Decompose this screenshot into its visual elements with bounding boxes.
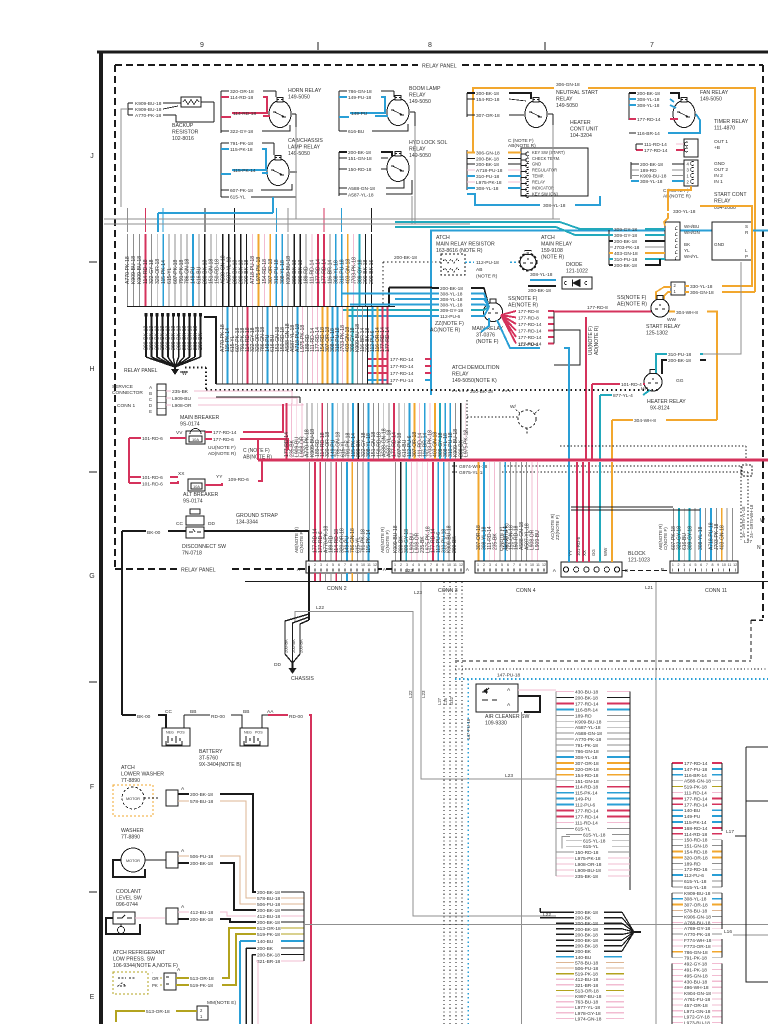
svg-text:307-OR-18: 307-OR-18	[476, 113, 500, 119]
svg-text:OUT 1: OUT 1	[714, 139, 728, 145]
wire L975-PK-18 bundle2	[302, 307, 304, 384]
svg-text:B: B	[149, 391, 152, 396]
svg-text:ALT BREAKER: ALT BREAKER	[183, 492, 219, 498]
wire 309-GY-18 bundle2	[352, 307, 354, 384]
svg-text:200-BK-18: 200-BK-18	[637, 91, 660, 97]
wire 150-RD-18 bundle1	[216, 234, 218, 306]
svg-text:200-BK-18: 200-BK-18	[640, 162, 663, 168]
wire 115-PK-14 bundle2	[227, 307, 229, 384]
wire 786-GN-18 trunk	[337, 403, 339, 459]
svg-text:200-BK: 200-BK	[257, 946, 274, 952]
svg-text:1: 1	[394, 563, 396, 567]
svg-text:+B: +B	[714, 145, 720, 151]
svg-text:2: 2	[400, 563, 402, 567]
svg-text:RELAY PANEL: RELAY PANEL	[181, 568, 216, 574]
svg-text:RELAY PANEL: RELAY PANEL	[422, 64, 457, 70]
svg-text:10A: 10A	[192, 437, 199, 442]
svg-text:G32: G32	[449, 696, 454, 705]
svg-text:149-PU: 149-PU	[684, 814, 701, 820]
svg-text:A588-GN-18: A588-GN-18	[684, 779, 711, 785]
wire 877-YL-4 into block	[599, 462, 601, 562]
svg-text:AE(NOTE R): AE(NOTE R)	[508, 303, 538, 309]
wire 309-GY-18	[405, 462, 407, 561]
wire 149-PU	[346, 462, 348, 561]
wire 235-BK	[421, 462, 423, 561]
wire K909-BU-18 bundle1	[132, 234, 134, 306]
svg-text:J: J	[90, 153, 94, 160]
wire J703-PK-18 bundle1	[353, 234, 355, 306]
svg-text:(NOTE R): (NOTE R)	[541, 255, 564, 261]
svg-text:519-PK-18: 519-PK-18	[684, 785, 707, 791]
svg-text:C(NOTE F): C(NOTE F)	[299, 530, 304, 553]
svg-text:ZZ(NOTE F): ZZ(NOTE F)	[555, 515, 560, 540]
wire 200-BK-18 bundle1	[246, 234, 248, 306]
svg-text:763-BU-18: 763-BU-18	[575, 1000, 599, 1006]
wire K909-BU-18 bundle2	[357, 307, 359, 384]
svg-text:177-RD-8: 177-RD-8	[518, 315, 539, 321]
wire 200-BK-18 left bundle	[189, 313, 191, 357]
svg-text:C: C	[149, 397, 152, 402]
wire 109-RD-6 into block	[576, 462, 578, 562]
svg-text:ATCH: ATCH	[541, 235, 555, 241]
svg-text:491-PK-18: 491-PK-18	[684, 968, 707, 974]
svg-text:309-GY-18: 309-GY-18	[440, 308, 463, 314]
svg-text:DD: DD	[208, 521, 215, 527]
wire 114-RD-18 bundle2	[247, 307, 249, 384]
svg-text:6: 6	[424, 563, 426, 567]
wire 112-PU-6 trunk	[408, 403, 410, 459]
svg-text:RESISTOR: RESISTOR	[172, 130, 199, 136]
svg-text:149-5050: 149-5050	[288, 95, 310, 101]
svg-text:308-YL-18: 308-YL-18	[640, 179, 663, 185]
wire K909-BU-18	[448, 462, 450, 561]
long feeders from bundles to atch main relay	[389, 287, 432, 289]
alt breaker 9S-0174	[188, 479, 205, 491]
svg-text:6: 6	[338, 563, 340, 567]
wire L975-PK-18 bundle1	[257, 234, 259, 306]
wire 200-BK-18 bundle1	[234, 234, 236, 306]
svg-text:10: 10	[530, 563, 534, 567]
wire 310-PU-18 bundle1	[275, 234, 277, 306]
wire 116-OR-14 bundle2	[377, 307, 379, 384]
wire 308-YL-18 trunk	[444, 403, 446, 459]
svg-text:112-PU-18: 112-PU-18	[476, 260, 499, 266]
svg-text:330-YL-18: 330-YL-18	[673, 209, 696, 215]
svg-text:AIR CLEANER SW: AIR CLEANER SW	[485, 714, 529, 720]
three 200-BK wires to chassis	[284, 627, 286, 654]
svg-text:147-PU-18: 147-PU-18	[466, 718, 471, 740]
svg-text:177-RD-8: 177-RD-8	[587, 305, 608, 311]
wire 310-PU-18 trunk	[449, 403, 451, 459]
dotted wire 112-PU-18 blue	[465, 261, 474, 263]
CONN 11	[670, 561, 738, 573]
svg-text:COOLANT: COOLANT	[116, 889, 142, 895]
svg-text:RELAY: RELAY	[714, 199, 731, 205]
svg-text:11: 11	[367, 563, 371, 567]
grid tick	[89, 681, 97, 683]
svg-text:8: 8	[436, 563, 438, 567]
svg-text:GND: GND	[714, 161, 725, 167]
svg-text:L26: L26	[443, 697, 448, 705]
svg-text:XX: XX	[178, 471, 185, 477]
svg-text:WH/GN: WH/GN	[684, 230, 700, 235]
svg-text:A770-PK-18: A770-PK-18	[135, 113, 161, 119]
wire 177-RD-14 trunk	[286, 403, 288, 459]
svg-text:A768-BU-18: A768-BU-18	[684, 920, 711, 926]
wire 151-GN-18 bundle2	[277, 307, 279, 384]
wire 200-BK-18 left bundle	[172, 313, 174, 357]
svg-text:SERVICE: SERVICE	[112, 384, 133, 390]
svg-text:200-BK-18: 200-BK-18	[190, 917, 213, 923]
dotted boundary line under bundle2	[206, 389, 660, 391]
svg-text:AB(NOTE R): AB(NOTE R)	[504, 523, 510, 551]
svg-text:L23: L23	[414, 590, 422, 596]
svg-text:168-RD-14: 168-RD-14	[684, 826, 708, 832]
svg-text:9X-8124: 9X-8124	[650, 406, 670, 412]
svg-text:G: G	[89, 573, 94, 580]
CONN 3	[392, 561, 464, 573]
svg-text:RELAY: RELAY	[532, 180, 545, 185]
svg-text:A588-GN-18: A588-GN-18	[348, 186, 375, 192]
svg-text:K909-BU-18: K909-BU-18	[135, 101, 162, 107]
svg-text:CONT UNIT: CONT UNIT	[570, 127, 599, 133]
relay panel dashed border top	[115, 64, 418, 66]
L21 vertical gray	[655, 582, 657, 1024]
svg-text:A587-YL-18: A587-YL-18	[575, 725, 601, 731]
wire 111-RD-14	[488, 462, 490, 561]
svg-text:200-BK-18: 200-BK-18	[476, 157, 499, 163]
wires continue down from list	[239, 941, 241, 1024]
svg-text:AB(NOTE R): AB(NOTE R)	[508, 143, 536, 149]
grid tick	[544, 42, 546, 50]
wire 177-RD-14	[501, 315, 516, 344]
svg-text:1: 1	[672, 563, 674, 567]
battery 2	[240, 728, 268, 746]
svg-text:WW: WW	[603, 547, 608, 556]
fine dotted line	[455, 668, 768, 670]
svg-text:3T-0376: 3T-0376	[476, 333, 495, 339]
L22 funnel merge	[622, 912, 634, 932]
svg-text:177-RD-14: 177-RD-14	[213, 430, 237, 436]
svg-text:GROUND STRAP: GROUND STRAP	[236, 513, 278, 519]
svg-text:101-RD-6: 101-RD-6	[142, 475, 163, 481]
svg-text:430-BU-18: 430-BU-18	[684, 979, 708, 985]
svg-text:L23: L23	[421, 690, 426, 698]
svg-text:L23: L23	[505, 773, 513, 779]
svg-text:YY: YY	[568, 550, 573, 556]
svg-text:200-BK-18: 200-BK-18	[575, 938, 598, 944]
svg-text:BLOCK: BLOCK	[628, 551, 646, 557]
svg-text:200-BK: 200-BK	[291, 639, 296, 653]
svg-text:AC(NOTE R): AC(NOTE R)	[550, 513, 555, 540]
svg-text:3T-5760: 3T-5760	[199, 756, 218, 762]
ground strap arrow W	[174, 367, 176, 369]
wire 307-OR-18 bundle2	[327, 307, 329, 384]
svg-text:CONN 1: CONN 1	[117, 403, 135, 409]
svg-text:7N-0718: 7N-0718	[182, 551, 202, 557]
wires into start contactor	[608, 229, 610, 265]
svg-text:149-PU: 149-PU	[351, 111, 368, 117]
svg-text:RELAY: RELAY	[556, 97, 573, 103]
svg-text:A: A	[149, 385, 152, 390]
red feeder vertical at left	[128, 438, 130, 483]
svg-text:L975-PK-18: L975-PK-18	[575, 856, 601, 862]
svg-text:309-GY-18: 309-GY-18	[614, 227, 637, 233]
svg-text:114-RD-18: 114-RD-18	[230, 95, 253, 101]
svg-text:121-1022: 121-1022	[566, 269, 588, 275]
svg-text:4: 4	[412, 563, 414, 567]
svg-text:CONN 4: CONN 4	[516, 588, 536, 594]
svg-text:DISCONNECT SW: DISCONNECT SW	[182, 544, 226, 550]
svg-text:POS: POS	[177, 731, 185, 735]
svg-text:235-BK: 235-BK	[172, 389, 189, 395]
svg-text:111-RD-14: 111-RD-14	[684, 791, 707, 797]
svg-text:578-BU-18: 578-BU-18	[257, 896, 281, 902]
wire 101-RD-6 into block	[582, 462, 584, 562]
svg-text:L909-BU: L909-BU	[172, 396, 191, 402]
svg-text:6: 6	[700, 563, 702, 567]
svg-text:322-GY-18: 322-GY-18	[230, 129, 253, 135]
svg-text:BK-00: BK-00	[147, 530, 161, 536]
svg-text:101-RD-4: 101-RD-4	[621, 382, 642, 388]
wire 200-BK-18 bundle1	[204, 234, 206, 306]
svg-text:200-BK-18: 200-BK-18	[575, 944, 598, 950]
red vertical 101-RD-4	[591, 384, 593, 460]
svg-text:177-RD-14: 177-RD-14	[684, 796, 708, 802]
svg-text:KEY SW (ON): KEY SW (ON)	[532, 192, 558, 197]
wire 189-RD trunk	[316, 403, 318, 459]
svg-text:F773-OR-18: F773-OR-18	[684, 944, 711, 950]
wire 111-RD-14 trunk	[419, 403, 421, 459]
svg-text:307-OR-18: 307-OR-18	[575, 761, 599, 767]
wire 200-BK-18 left bundle	[145, 313, 147, 357]
start contactor right labels box	[712, 222, 752, 260]
svg-text:308-YL-18: 308-YL-18	[476, 186, 499, 192]
svg-text:9: 9	[442, 563, 444, 567]
svg-text:149-5050: 149-5050	[288, 151, 310, 157]
svg-text:200-BK-18: 200-BK-18	[348, 150, 371, 156]
svg-text:506-PU-18: 506-PU-18	[257, 902, 281, 908]
svg-text:L27: L27	[437, 697, 442, 705]
wire A588-GN-18	[520, 462, 522, 561]
svg-text:513-OR-18: 513-OR-18	[190, 976, 214, 982]
wire 308-YL-18	[699, 508, 701, 561]
wire A588-GN-18 trunk	[383, 403, 385, 459]
wire K909-BU-18 trunk	[454, 403, 456, 459]
wire K909-BU-18 bundle1	[287, 234, 289, 306]
svg-text:XX: XX	[582, 550, 587, 556]
svg-text:ZZ(NOTE F): ZZ(NOTE F)	[435, 321, 464, 327]
svg-text:1: 1	[477, 563, 479, 567]
wire J703-PK-18	[715, 508, 717, 561]
svg-text:5: 5	[332, 563, 334, 567]
svg-text:513-OR-18: 513-OR-18	[575, 988, 599, 994]
svg-text:7: 7	[344, 563, 346, 567]
svg-text:9: 9	[356, 563, 358, 567]
wire 607-PK-18	[673, 508, 675, 561]
svg-text:L972-GY-18: L972-GY-18	[684, 1015, 710, 1021]
svg-text:GND: GND	[714, 242, 725, 247]
svg-text:578-BU-18: 578-BU-18	[575, 960, 599, 966]
wire 114-RD-18	[335, 462, 337, 561]
svg-text:IN 1: IN 1	[714, 179, 723, 185]
svg-text:403-GN-18: 403-GN-18	[614, 251, 638, 257]
wire J703-PK-18 bundle2	[342, 307, 344, 384]
svg-text:DIODE: DIODE	[566, 262, 583, 268]
svg-text:114-RD-18: 114-RD-18	[575, 785, 598, 791]
svg-text:149-5050: 149-5050	[409, 153, 431, 159]
svg-text:MM(NOTE E): MM(NOTE E)	[207, 1000, 236, 1006]
wire 330-YL-18 into contactor top	[664, 213, 668, 226]
svg-text:200-BK-18: 200-BK-18	[257, 908, 280, 914]
svg-text:235-BK: 235-BK	[492, 533, 498, 550]
svg-text:9X-3404(NOTE B): 9X-3404(NOTE B)	[199, 762, 242, 768]
wire 116-BR-14 trunk	[424, 403, 426, 459]
svg-text:L975-PK-18: L975-PK-18	[476, 180, 502, 186]
svg-text:615-YL: 615-YL	[575, 826, 591, 832]
svg-text:8: 8	[350, 563, 352, 567]
svg-text:B: B	[661, 567, 664, 573]
wire 607-PK-18 bundle1	[174, 234, 176, 306]
dotted vertical columns	[443, 582, 445, 1024]
wire 112-PU-6 bundle2	[372, 307, 374, 384]
start cont relay upper box pins	[684, 160, 698, 186]
horn relay K 149-5050	[269, 101, 291, 128]
svg-text:320-OR-18: 320-OR-18	[575, 767, 599, 773]
svg-text:12: 12	[373, 563, 377, 567]
svg-text:177-RD-14: 177-RD-14	[575, 809, 599, 815]
svg-text:307-OR-18: 307-OR-18	[684, 903, 708, 909]
grid tick	[89, 891, 97, 893]
wire 200-BK-18 left bundle	[167, 313, 169, 357]
svg-text:AC(NOTE R): AC(NOTE R)	[430, 328, 461, 334]
svg-text:8: 8	[428, 42, 432, 49]
wire 114-RD-18 bundle1	[144, 234, 146, 306]
wire	[694, 508, 696, 561]
svg-text:8: 8	[712, 563, 714, 567]
svg-text:112-PU-6: 112-PU-6	[575, 803, 596, 809]
svg-text:109-9330: 109-9330	[485, 721, 507, 727]
wire 154-RD-18 bundle2	[322, 307, 324, 384]
svg-text:7: 7	[706, 563, 708, 567]
CONN 2	[306, 561, 378, 573]
svg-text:L909-BU-18: L909-BU-18	[575, 868, 601, 874]
wire 616-BU bundle2	[272, 307, 274, 384]
teal feeders from left into contactor	[395, 222, 609, 229]
dotted wire 200-BK-18 to resistor	[383, 261, 441, 263]
svg-text:MOTOR: MOTOR	[126, 859, 140, 863]
wire 177-RD-14	[501, 315, 516, 331]
svg-text:NEUTRAL START: NEUTRAL START	[556, 90, 599, 96]
svg-text:WASHER: WASHER	[121, 828, 144, 834]
svg-text:306-GN-18: 306-GN-18	[476, 151, 500, 157]
svg-text:10: 10	[722, 563, 726, 567]
svg-text:506-PU-18: 506-PU-18	[190, 854, 214, 860]
wire stubs above bundle1	[127, 208, 129, 232]
svg-text:2: 2	[314, 563, 316, 567]
svg-text:149-5050(NOTE K): 149-5050(NOTE K)	[452, 378, 497, 384]
wire 307-OR-18 trunk	[414, 403, 416, 459]
wire 235-BK trunk	[291, 403, 293, 459]
svg-text:N: N	[757, 545, 761, 551]
wire 150-RD-18	[515, 462, 517, 561]
grid tick	[89, 261, 97, 263]
svg-text:L908-OR: L908-OR	[172, 403, 192, 409]
wire 177-PU-14	[368, 379, 388, 381]
svg-text:308-YL-18: 308-YL-18	[440, 291, 463, 297]
wire 154-RD-18 bundle1	[263, 234, 265, 306]
dotted wires demolition	[466, 400, 468, 434]
wire 791-PK-18 bundle2	[242, 307, 244, 384]
svg-text:12: 12	[459, 563, 463, 567]
wire 616-BU trunk	[403, 403, 405, 459]
wire L975-PK-18 trunk	[465, 403, 467, 459]
svg-text:200-BK: 200-BK	[198, 332, 204, 350]
svg-text:10A: 10A	[193, 485, 200, 489]
wire 200-BK left bundle	[200, 313, 202, 357]
svg-text:INDICATOR: INDICATOR	[532, 186, 554, 191]
trunk top bracket	[299, 397, 301, 403]
svg-text:310-PU-18: 310-PU-18	[668, 352, 692, 358]
wire 200-BK-18 bundle1	[240, 234, 242, 306]
svg-text:115-PK-14: 115-PK-14	[575, 791, 598, 797]
svg-text:7: 7	[513, 563, 515, 567]
wire 309-GY-18	[689, 508, 691, 561]
wire 322-GY-18 bundle1	[150, 234, 152, 306]
svg-text:615-YL-18: 615-YL-18	[583, 838, 606, 844]
svg-text:200-BK-16: 200-BK-16	[369, 259, 375, 284]
wire 101-RD-4 into block	[588, 462, 590, 562]
svg-text:A718-PU-18: A718-PU-18	[476, 168, 503, 174]
wire 200-BK	[400, 462, 402, 561]
svg-text:412-BU-18: 412-BU-18	[575, 977, 599, 983]
svg-text:189-RD: 189-RD	[684, 861, 701, 867]
wire 177-RD-14	[432, 462, 434, 561]
wire A770-PK-18 bundle2	[222, 307, 224, 384]
wire L909-BU trunk	[296, 403, 298, 459]
wire L22 route to bottom list	[295, 612, 556, 917]
wire 235-BK	[494, 462, 496, 561]
svg-text:MAIN RELAY: MAIN RELAY	[541, 242, 573, 248]
svg-text:L22: L22	[316, 605, 324, 611]
wire A770-PK-18 bundle1	[127, 234, 129, 306]
wire 200-BK trunk	[357, 403, 359, 459]
svg-text:615-YL: 615-YL	[230, 195, 246, 201]
svg-text:114-RD-18: 114-RD-18	[684, 832, 707, 838]
svg-text:112-PU-6: 112-PU-6	[518, 342, 539, 348]
fan relay 149-5050	[673, 101, 695, 128]
svg-text:C(NOTE F): C(NOTE F)	[663, 527, 668, 550]
CONN 4	[475, 561, 547, 573]
svg-text:154-RD-18: 154-RD-18	[684, 850, 708, 856]
svg-text:496-WH-18: 496-WH-18	[684, 985, 709, 991]
wire 786-GN-18 bundle1	[186, 234, 188, 306]
svg-text:BATTERY: BATTERY	[199, 749, 223, 755]
svg-text:791-PK-18: 791-PK-18	[684, 956, 707, 962]
svg-text:AE(NOTE R): AE(NOTE R)	[617, 302, 647, 308]
svg-text:WH/YL: WH/YL	[684, 254, 699, 259]
svg-text:615-YL-18: 615-YL-18	[583, 832, 606, 838]
svg-text:200-BK-18: 200-BK-18	[190, 861, 213, 867]
svg-text:308-YL-18: 308-YL-18	[684, 897, 707, 903]
svg-text:177-RD-8: 177-RD-8	[518, 309, 539, 315]
svg-text:9: 9	[525, 563, 527, 567]
svg-text:412-BU-18: 412-BU-18	[190, 910, 214, 916]
wire 308-YL-18 bundle1	[335, 234, 337, 306]
svg-text:189-RD: 189-RD	[575, 713, 592, 719]
svg-text:140-BU: 140-BU	[257, 939, 274, 945]
wire 111-RD-14 bundle1	[311, 234, 313, 306]
